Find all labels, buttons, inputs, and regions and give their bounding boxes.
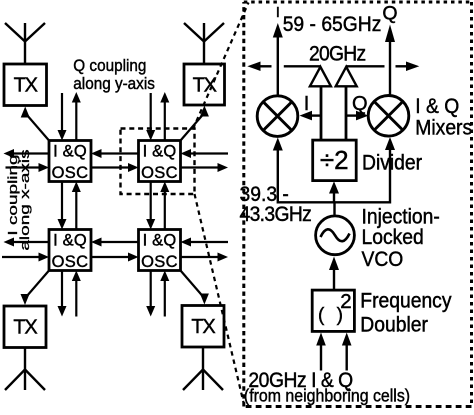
wire: LO distribution line to mixers (273, 137, 395, 202)
wire: horizontal I-coupling row1 right-flow line, between OSC1 and OSC2 (91, 163, 139, 172)
wire: horizontal I-coupling row2 right-flow line, left of OSC3 (2, 253, 49, 262)
wire: horizontal I-coupling row1 right-flow line, right of OSC2 (181, 163, 229, 172)
wire: vertical Q-coupling col2 down-line between OSC2 and OSC4 (146, 182, 155, 230)
wire: horizontal I-coupling row1 right-flow line, left of OSC1 (6, 163, 50, 172)
svg-text:OSC: OSC (141, 253, 178, 271)
wire: horizontal I-coupling row2 right-flow line, between OSC3 and OSC4 (91, 253, 139, 262)
label: 39.3 - 43.3GHz (240, 183, 312, 226)
wire: VCO top riser (333, 202, 335, 215)
wire: 20GHz line right arrow to neighbor (396, 62, 420, 72)
wire: diagonal OSC3 to TX3 (21, 271, 50, 306)
dashed zoom line upper (193, 3, 249, 130)
wire: horizontal I-coupling row2 left-flow line, between OSC3 and OSC4 (91, 238, 139, 247)
wire: horizontal I-coupling row1 left-flow line, right of OSC2 (181, 149, 229, 158)
wire: doubler input I arrow (316, 333, 326, 371)
wire: VCO output to divider arrow (329, 181, 339, 202)
wire: doubler input Q arrow (342, 333, 352, 371)
wire: vertical Q-coupling col1 up-line below OSC3 (72, 271, 81, 317)
svg-text:OSC: OSC (52, 253, 89, 271)
svg-text:I & Q: I & Q (415, 96, 459, 119)
wire: diagonal OSC2 to TX2 (181, 106, 209, 141)
wire: Q output arrow (59-65GHz) (385, 25, 395, 96)
svg-text:I: I (276, 4, 280, 21)
block OSC1 (top-left I&Q oscillator) (49, 141, 91, 182)
wire: Q feed arrow into right mixer (346, 111, 369, 121)
svg-text:I: I (304, 93, 310, 115)
block TX3 (bottom-left transmitter) (4, 306, 46, 348)
wire: vertical Q-coupling col1 up-line between OSC1 and OSC3 (72, 182, 81, 230)
wire: vertical Q-coupling col2 up-line between OSC2 and OSC4 (160, 182, 169, 230)
svg-text:43.3GHz: 43.3GHz (240, 203, 312, 226)
block OSC4 (bottom-right I&Q oscillator) (139, 230, 181, 271)
divider block U1 (divide by 2) (313, 140, 357, 181)
svg-text:Mixers: Mixers (415, 117, 472, 140)
label: Frequency Doubler (360, 290, 452, 337)
wire: 20GHz line left arrow to neighbor (247, 62, 271, 72)
svg-text:59 - 65GHz: 59 - 65GHz (283, 13, 382, 36)
mixer M1 (I mixer, circle with X) (257, 96, 298, 137)
svg-text:2: 2 (340, 290, 351, 313)
wire: vertical Q-coupling col2 up-line above OSC2 (160, 92, 169, 141)
wire: divider I output feed line (320, 86, 323, 140)
wire: horizontal I-coupling row2 left-flow line, left of OSC3 (4, 238, 50, 247)
svg-text:along y-axis: along y-axis (73, 74, 155, 93)
svg-text:TX: TX (191, 316, 215, 338)
wire: 20GHz line left segment (284, 65, 321, 67)
wire: vertical Q-coupling col1 up-line above OSC1 (72, 92, 81, 141)
frequency doubler block (squarer) (312, 290, 354, 331)
antenna ANT2 (top-right) (184, 23, 224, 64)
label: Q coupling along y-axis (73, 56, 155, 93)
wire: vertical Q-coupling col2 up-line below OSC4 (160, 271, 169, 317)
buffer amplifier triangle right (336, 67, 357, 87)
svg-text:TX: TX (14, 75, 38, 97)
svg-text:Divider: Divider (362, 152, 422, 175)
wire: vertical Q-coupling col1 down-line below OSC3 (58, 271, 67, 317)
label: I coupling along x-axis (rotated) (6, 149, 33, 250)
svg-text:along x-axis: along x-axis (18, 149, 33, 250)
block TX2 (top-right transmitter) (184, 64, 225, 105)
svg-text:OSC: OSC (52, 164, 89, 182)
block TX4 (bottom-right transmitter) (182, 306, 224, 348)
mixer M2 (Q mixer, circle with X) (368, 96, 409, 137)
svg-text:VCO: VCO (362, 248, 404, 271)
svg-text:Injection-: Injection- (362, 206, 440, 229)
svg-text:Frequency: Frequency (360, 290, 452, 313)
wire: I feed arrow into left mixer (300, 111, 322, 121)
wire: doubler output to VCO arrow (329, 257, 339, 291)
wire: 20GHz line right segment (346, 65, 384, 67)
label: I & Q Mixers (415, 96, 472, 140)
wire: vertical Q-coupling col1 down-line between OSC1 and OSC3 (58, 182, 67, 230)
antenna ANT1 (top-left) (5, 23, 45, 64)
wire: diagonal OSC4 to TX4 (181, 271, 209, 305)
svg-text:OSC: OSC (141, 164, 178, 182)
block OSC3 (bottom-left I&Q oscillator) (49, 230, 91, 271)
oscillator VCO (circle with sine) (316, 216, 355, 255)
svg-text:20GHz: 20GHz (309, 43, 366, 66)
svg-text:I &Q: I &Q (53, 143, 87, 161)
svg-text:Q: Q (352, 93, 368, 115)
wire: horizontal I-coupling row1 left-flow line, left of OSC1 (4, 149, 50, 158)
dashed zoom line lower (195, 194, 245, 405)
svg-text:(from neighboring cells): (from neighboring cells) (244, 386, 410, 406)
svg-text:TX: TX (193, 75, 217, 97)
wire: I output arrow (59-65GHz) (273, 23, 283, 95)
wire: vertical Q-coupling col2 down-line above OSC2 (146, 93, 155, 141)
svg-text:Q coupling: Q coupling (73, 56, 146, 75)
svg-text:I &Q: I &Q (143, 232, 177, 250)
buffer amplifier triangle left (310, 67, 331, 87)
svg-text:Q: Q (382, 3, 397, 25)
wire: vertical Q-coupling col2 down-line below OSC4 (146, 271, 155, 317)
wire: divider Q output feed line (345, 86, 348, 140)
wire: diagonal OSC1 to TX1 (21, 107, 49, 141)
antenna ANT4 (bottom-right) (183, 347, 223, 390)
svg-text:I &Q: I &Q (143, 143, 177, 161)
dashed zoom-source box around OSC2 (121, 129, 195, 195)
wire: horizontal I-coupling row2 left-flow line, right of OSC4 (181, 238, 229, 247)
svg-text:Doubler: Doubler (360, 314, 428, 337)
svg-text:I &Q: I &Q (53, 232, 87, 250)
svg-text:Locked: Locked (362, 227, 424, 250)
svg-text:÷2: ÷2 (320, 145, 349, 175)
wire: horizontal I-coupling row1 left-flow line, between OSC1 and OSC2 (91, 149, 139, 158)
antenna ANT3 (bottom-left) (5, 348, 45, 391)
dashed detail panel border (244, 2, 472, 407)
svg-text:TX: TX (13, 317, 37, 339)
label: Injection-Locked VCO (362, 206, 440, 271)
wire: vertical Q-coupling col1 down-line above OSC1 (58, 93, 67, 141)
block TX1 (top-left transmitter) (4, 64, 47, 106)
block OSC2 (top-right I&Q oscillator) (139, 141, 181, 182)
wire: horizontal I-coupling row2 right-flow line, right of OSC4 (181, 253, 229, 262)
